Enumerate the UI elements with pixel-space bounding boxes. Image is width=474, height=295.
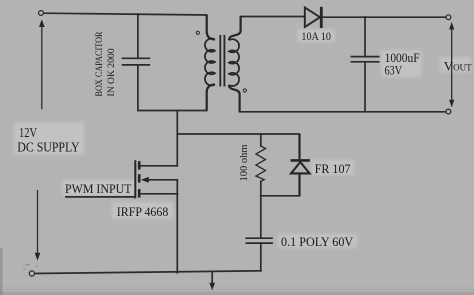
svg-text:0.1 POLY 60V: 0.1 POLY 60V xyxy=(281,235,353,249)
svg-text:10A 10: 10A 10 xyxy=(301,29,331,43)
svg-text:63V: 63V xyxy=(385,63,402,77)
svg-text:100 ohm: 100 ohm xyxy=(239,144,250,181)
svg-text:FR 107: FR 107 xyxy=(315,162,351,176)
svg-text:IRFP 4668: IRFP 4668 xyxy=(117,204,169,219)
svg-text:DC SUPPLY: DC SUPPLY xyxy=(17,140,80,155)
svg-text:BOX CAPACITOR: BOX CAPACITOR xyxy=(95,31,105,97)
svg-text:12V: 12V xyxy=(19,125,37,140)
svg-text:IN OK 2000: IN OK 2000 xyxy=(107,48,117,96)
svg-text:PWM INPUT: PWM INPUT xyxy=(65,182,132,196)
